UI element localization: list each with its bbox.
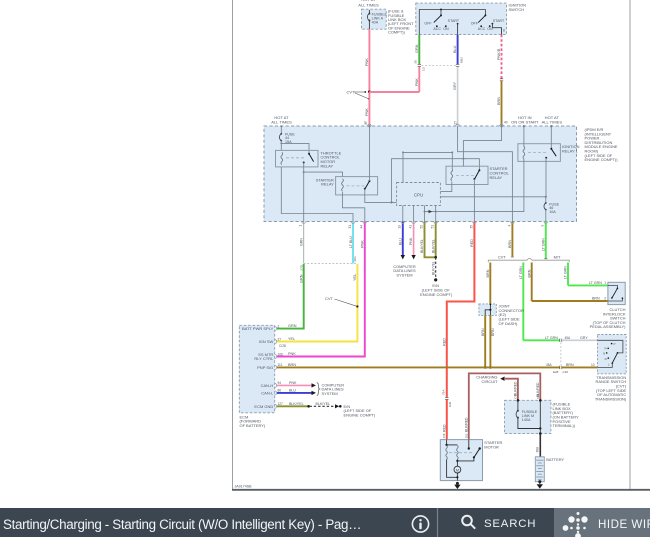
wire PNK junction to IPDM [364,92,370,126]
wire feed to ignition relay coil [523,125,525,147]
connector on GRN wire [414,60,426,71]
fusible link F symbol [367,10,370,29]
joint connector internal bus [485,304,491,316]
svg-text:BRN: BRN [592,297,600,301]
wire BRN to clutch interlock switch pin 2 [532,297,608,301]
svg-text:CIRCUIT: CIRCUIT [482,379,499,384]
svg-text:D/2: D/2 [464,433,468,438]
svg-text:BLK/RED: BLK/RED [514,381,518,396]
wire to starter relay coil [304,172,343,177]
svg-text:140A: 140A [522,418,531,422]
connector on PNK/B wire [500,79,503,81]
clutch interlock switch contacts [608,285,623,301]
starter relay name label [316,177,334,186]
fusible link A symbol (battery) [516,400,519,418]
toolbar [0,508,650,537]
wire BRN joint connector leg B [490,315,495,367]
node CVT splice junction [347,90,371,100]
wire BLU ignition START to connector [453,35,457,65]
fusible link box (battery) label [553,402,579,429]
starter solenoid coils [445,440,458,460]
starter control relay name label [490,166,510,180]
svg-text:BRN: BRN [486,269,490,277]
svg-text:LT GRN: LT GRN [519,266,523,279]
svg-text:YEL: YEL [353,274,357,281]
connector dashed link (F45) [560,343,562,366]
svg-text:GRN: GRN [288,324,297,328]
svg-text:LT BLU: LT BLU [349,236,353,248]
wire CPU to fuse 46 node [440,196,547,198]
wire ignition relay coil to CPU (CAN node) [424,159,524,214]
ECM name label [240,414,266,428]
wire LT BLU IPDM pin31 [349,222,353,264]
IPDM location label [585,127,619,162]
wire GRY connector to TR switch pin 1 [562,339,598,341]
svg-text:ENGINE COMPT): ENGINE COMPT) [420,292,453,297]
connector link GRN/YEL dashed [299,256,357,271]
CPU box [397,183,441,206]
wire GRN thin IPDM pin1 to connector [300,222,304,264]
svg-text:8: 8 [503,28,505,32]
node CVT tap on YEL wire [325,296,359,307]
svg-text:CVT: CVT [347,90,355,95]
ignition switch section 1 contacts [436,23,459,27]
ECM pin numbers [278,324,286,406]
svg-text:ALL TIMES: ALL TIMES [271,120,292,125]
IPDM E/R enclosure [264,126,577,222]
svg-text:ENGINE COMPT)): ENGINE COMPT)) [585,157,619,162]
svg-text:GRY: GRY [580,336,588,340]
svg-text:106: 106 [278,352,284,356]
starter relay box [336,177,378,195]
fusible link box (battery) [505,399,551,433]
wire BRN connector to TR switch pin 10 [562,363,598,368]
ECM box [239,325,274,413]
svg-text:ALL TIMES: ALL TIMES [358,2,379,7]
toolbar title [3,510,361,537]
svg-text:RELAY: RELAY [321,182,334,187]
svg-text:BRN: BRN [497,97,501,105]
svg-text:BLK/RED: BLK/RED [464,417,468,432]
svg-text:OFF: OFF [471,22,479,26]
brace for data lines [317,383,320,396]
svg-text:ON: ON [443,27,449,31]
svg-text:LT GRN: LT GRN [541,238,545,251]
ignition relay actuator dash line [528,152,546,154]
svg-text:GRN: GRN [299,274,303,283]
svg-text:N: N [603,352,605,356]
svg-text:M/T: M/T [554,254,561,259]
battery label [546,457,564,462]
transmission range switch position dots [606,343,612,359]
svg-text:2: 2 [278,324,280,328]
wire BLK/YEL ECM GND [277,402,310,408]
connector ticks at option bracket feeds [511,257,548,259]
starter relay contact [364,180,371,190]
svg-text:YEL: YEL [288,337,295,341]
svg-text:JA0174SB: JA0174SB [235,485,253,489]
svg-text:PNK/B: PNK/B [497,48,501,60]
starter motor M [454,460,461,481]
ignition relay 1 contact [545,125,556,159]
transmission range switch label [595,375,627,402]
svg-text:ECM GND: ECM GND [254,404,273,409]
svg-text:BLK/YEL: BLK/YEL [316,402,331,406]
ignition switch section 2 contacts [480,23,493,27]
svg-text:C/28: C/28 [279,344,286,348]
wire BRN CVT branch to joint connector [486,263,490,304]
ground lead dashed (IPDM) [431,257,437,281]
svg-text:E28: E28 [553,370,559,374]
wire LT GRN CVT branch [519,263,523,341]
wire BRN PNP SIG long run [277,363,560,367]
svg-text:RELAY: RELAY [490,175,503,180]
wire BLK/YEL pair to ground [420,222,437,259]
ground below battery [537,480,543,488]
svg-text:41: 41 [409,225,413,229]
svg-text:PNK: PNK [365,58,369,66]
svg-text:BLK/YEL: BLK/YEL [431,261,435,275]
starter contact studs and arm [457,440,481,461]
svg-text:C30: C30 [563,370,569,374]
svg-text:GRN: GRN [300,238,304,246]
toolbar divider [437,508,439,537]
ignition switch internal bus wire [419,10,485,35]
fusible link F value label [372,13,388,25]
wire BLK/RED to charging circuit arrow [500,377,518,401]
wire LT GRN to clutch interlock switch pin 1 [568,281,608,285]
svg-text:CVT: CVT [325,296,333,301]
svg-text:PNK: PNK [288,352,296,356]
wire PNK CAN to data lines arrow [409,222,416,260]
svg-text:BLU: BLU [453,45,457,53]
throttle relay actuator dash line [286,157,304,159]
wire BRN to IPDM [497,81,508,126]
svg-text:75A: 75A [441,390,445,395]
svg-text:RED: RED [470,239,474,247]
wire PNK from fusible link F down [368,29,370,92]
ignition switch enclosure [416,3,507,34]
svg-text:40: 40 [504,121,508,125]
label charging circuit [476,374,498,384]
svg-text:9: 9 [541,225,545,227]
wire PNK below connector [415,67,419,93]
svg-text:LT GRN: LT GRN [564,266,568,279]
svg-text:GRN: GRN [415,44,419,53]
fuse 46 [544,197,547,222]
svg-text:MOTOR: MOTOR [484,444,499,449]
svg-text:E30: E30 [448,401,452,407]
svg-text:BRN: BRN [527,269,531,277]
wire fuse44 coil return [281,167,353,222]
battery [535,457,544,482]
wire starter control relay output to pin [473,179,475,222]
wire ignition relay output to fuse 46 [545,158,547,197]
ground E/N label (ECM) [344,404,376,418]
svg-text:GRY: GRY [453,81,457,90]
wire starter relay coil to pin (magenta column) [343,192,365,222]
wire CPU to starter control relay coil [402,151,453,182]
svg-text:44: 44 [360,225,364,229]
wire LT GRN IPDM to option bracket [541,222,545,259]
svg-text:BRN: BRN [491,328,495,336]
svg-text:CPU: CPU [414,193,423,198]
svg-text:IGN SW: IGN SW [259,339,274,344]
svg-text:BLU: BLU [289,389,296,393]
svg-text:BLK/YEL: BLK/YEL [420,239,424,253]
wire PNK/B ignition to connector [497,35,501,79]
CPU bottom stubs [403,206,436,222]
svg-text:BLK/YEL: BLK/YEL [289,402,304,406]
svg-text:PEDAL ASSEMBLY): PEDAL ASSEMBLY) [590,324,627,329]
svg-text:10: 10 [591,363,595,367]
wire label PNK [365,58,369,66]
label computer data lines (ECM) [322,382,345,396]
transmission range switch box [598,335,627,374]
svg-text:BRN: BRN [481,328,485,336]
svg-text:BATTERY: BATTERY [546,457,564,462]
wire from START 1 to pin [457,24,459,35]
search label [484,510,536,537]
toolbar right section [554,508,650,537]
ground E/N label (IPDM) [420,283,453,297]
starter control relay contact [473,169,480,180]
connector on BLU wire [456,57,464,67]
fuse box: fusible link F enclosure [362,9,387,29]
wire BRN feed into ignition relay box [462,125,502,166]
svg-text:4: 4 [507,225,511,227]
hide wires label [598,510,650,537]
svg-text:ACC: ACC [478,27,486,31]
svg-text:PNK: PNK [409,237,413,245]
ignition switch section 2 position labels [471,19,505,31]
svg-text:START: START [493,19,505,23]
svg-text:PNK: PNK [360,240,364,248]
svg-text:PNK: PNK [365,108,369,116]
label HOT IN ON OR START (ignition relay coil) [511,115,539,125]
svg-text:ENGINE COMPT): ENGINE COMPT) [344,412,376,417]
wire BLU CAN-L arrow [277,389,316,396]
wire starter relay output to CPU and starter control relay [365,159,480,204]
starter solenoid actuator dash line [449,452,474,454]
svg-text:PNP SIG: PNP SIG [257,365,273,370]
wire BLK/RED battery to starter motor [464,373,540,439]
ignition switch section 2 arm [478,15,485,22]
wire from START 2 to pin [492,24,505,35]
wire PNK feed to starter relay contact [368,125,370,181]
wire PNK CAN-H arrow [277,381,316,388]
svg-text:SWITCH: SWITCH [509,7,525,12]
svg-text:PNK: PNK [289,381,297,385]
wire starter control relay coil to fuse 46 feed [440,182,451,192]
starter relay actuator dash line [347,185,365,187]
wire fuse44 branch to throttle relay contact [280,143,309,154]
fuse 44 [280,125,283,150]
svg-text:M52: M52 [460,57,464,63]
starter motor name label [484,440,502,449]
svg-text:BRN: BRN [508,240,512,248]
wire GRN ignition pin to connector [415,35,419,65]
svg-text:ALL TIMES: ALL TIMES [542,120,563,125]
pin labels battery fusible box [514,394,540,399]
svg-text:1D: 1D [421,66,425,71]
joint connector box [479,304,496,316]
drawing number label [235,485,253,489]
svg-text:LT GRN: LT GRN [589,281,602,285]
pin labels IPDM bottom [299,225,545,229]
fusible link internal wires [518,400,542,435]
hide wires icon [563,512,588,537]
wire throttle relay output down to pin 1 [303,163,305,222]
ignition switch section 1 pivot [440,9,442,17]
label HOT AT ALL TIMES (fuse 44) [271,115,292,125]
svg-text:RED: RED [442,338,446,346]
fuse 44 value label [285,132,295,144]
svg-text:27G: 27G [299,264,303,270]
ignition relay 1 box [518,144,561,162]
wire RED lower to starter pin [442,400,446,440]
svg-text:C/4: C/4 [536,394,540,399]
svg-text:BLK/YEL: BLK/YEL [431,239,435,253]
svg-text:OFF: OFF [424,22,432,26]
ignition relay 1 name label [562,144,580,153]
throttle control motor relay coil [281,152,283,164]
ground below starter motor [454,482,460,489]
connector link dashed [422,64,456,66]
svg-text:BRN: BRN [288,363,296,367]
page right border [629,0,631,489]
svg-text:2: 2 [604,297,606,301]
connector on RED wire [441,390,452,407]
transmission range switch position letters [603,342,616,366]
svg-text:TRANSMISSION): TRANSMISSION) [595,396,627,401]
in-line connector on LT GRN to TR switch [523,336,588,342]
svg-text:40A: 40A [372,21,379,25]
svg-text:35: 35 [469,225,473,229]
transmission range switch contacts [598,340,623,367]
svg-text:RED: RED [442,424,446,432]
ground lead dashed (ECM) [310,402,342,409]
svg-text:36A: 36A [536,446,540,453]
wire BLK fusible link to battery [536,434,541,457]
svg-text:1: 1 [604,281,606,285]
svg-text:51: 51 [431,225,435,229]
ignition switch section 1 position labels [424,19,460,31]
svg-text:RLY CTRL: RLY CTRL [254,356,274,361]
wire GRN to ECM BATT PWR SPLY [277,264,304,329]
fuse 46 value label [549,202,559,214]
svg-text:SYSTEM: SYSTEM [396,272,412,277]
svg-text:LT GRN: LT GRN [545,336,558,340]
starter control relay coil [451,168,453,180]
ECM pin bumps [275,327,277,409]
IPDM border pin bumps [302,124,548,223]
pin labels starter motor [442,433,468,438]
clutch interlock switch label [590,307,627,329]
wire PNK horizontal from ignition feed to junction [369,91,419,93]
svg-text:8F: 8F [364,121,368,125]
svg-text:50: 50 [414,60,418,64]
svg-text:C/2: C/2 [514,394,518,399]
svg-text:27: 27 [278,337,282,341]
starter hold-in coil return [447,460,458,478]
svg-text:10A: 10A [549,210,556,214]
label HOT AT ALL TIMES (fusible link F) [358,0,379,7]
page left border [232,0,234,489]
ignition switch name label [509,3,527,12]
svg-text:1: 1 [299,225,303,227]
svg-text:52: 52 [419,225,423,229]
label HOT AT ALL TIMES (ignition relay contact) [542,115,563,125]
svg-text:RELAY 1: RELAY 1 [562,148,578,153]
svg-text:M: M [456,467,459,472]
svg-text:RELAY: RELAY [321,163,334,168]
starter motor box [440,440,482,481]
wire BRN joint connector leg A [481,315,485,367]
ignition switch section 1 arm [434,15,441,22]
wire BRN IPDM to option bracket [508,222,512,257]
svg-text:START: START [448,19,460,23]
page bottom border [232,489,650,491]
svg-text:PNK: PNK [415,78,419,86]
wire LT GRN M/T branch [564,263,568,286]
svg-text:BATT PWR SPLY: BATT PWR SPLY [242,326,274,331]
throttle control motor relay box [276,150,319,167]
svg-text:CAN-H: CAN-H [261,383,274,388]
in-line connector on BRN PNP to TR switch [546,363,574,374]
svg-text:CAN-L: CAN-L [261,391,274,396]
clutch interlock switch box [608,282,625,304]
fuse box location label [388,9,414,35]
svg-text:45A: 45A [565,336,572,340]
svg-text:BLU: BLU [398,238,402,245]
svg-text:OF DASH): OF DASH) [499,321,519,326]
wire GRY to IPDM [453,67,457,127]
svg-text:SYSTEM: SYSTEM [322,391,338,396]
svg-text:COMPT)): COMPT)) [388,30,406,35]
svg-text:ACC: ACC [433,27,441,31]
label computer data lines (IPDM) [393,264,416,278]
svg-text:CVT: CVT [498,254,506,259]
svg-text:31: 31 [348,225,352,229]
wire BLU CAN to data lines arrow [398,222,405,260]
svg-text:45A: 45A [546,363,553,367]
wire GRY feed to BRN output pin [458,126,513,222]
starter relay coil [342,179,344,191]
wire RED to starter motor [442,222,474,398]
wire PNK starter relay control to ECM [277,222,365,357]
throttle relay name label [321,150,342,168]
svg-text:ON OR START: ON OR START [511,120,539,125]
ignition relay 1 coil [523,146,525,158]
fusible link A value label [522,410,538,422]
node joints on PNP wire [484,366,492,369]
option split bracket CVT / M/T [488,254,569,262]
joint connector label [499,304,524,326]
svg-text:TERMINAL)): TERMINAL)) [553,423,576,428]
ignition switch section 2 pivot [484,14,486,16]
throttle relay contact [303,153,314,164]
info icon [412,516,428,532]
svg-text:OF BATTERY): OF BATTERY) [240,423,266,428]
starter control relay box [446,166,488,184]
wire BRN M/T branch [527,263,531,302]
starter control relay actuator dash line [456,174,474,176]
svg-text:19: 19 [398,225,402,229]
svg-text:C/8: C/8 [442,433,446,438]
ECM pin name labels [242,326,274,409]
svg-text:P: P [614,342,616,346]
